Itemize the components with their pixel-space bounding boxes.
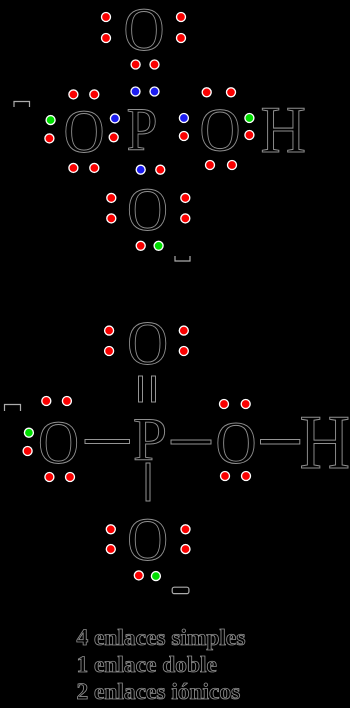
bond pair O2-P	[109, 114, 119, 142]
lone pair O8 left	[106, 525, 115, 554]
svg-text:O: O	[127, 310, 168, 378]
charge minus (left of O6)	[5, 405, 21, 412]
single bond O7-H2	[261, 440, 300, 445]
svg-text:O: O	[64, 98, 105, 166]
svg-text:P: P	[127, 96, 158, 164]
lone pair O3 bottom	[206, 161, 237, 170]
charge minus (bottom-right of O8)	[172, 587, 189, 593]
lone pair O6 top	[42, 397, 72, 406]
lone pair O5 right	[179, 326, 188, 355]
caption line 2	[77, 652, 217, 678]
lone pair O8 right	[181, 525, 190, 554]
lone pair O1 right	[177, 13, 186, 43]
svg-text:1 enlace doble: 1 enlace doble	[77, 652, 217, 678]
bond pair O3-H (green H electron)	[245, 114, 254, 140]
atom O5 (top oxygen)	[127, 310, 168, 378]
ionic electron green + O electron left of O2	[45, 116, 55, 143]
atom O2 (left oxygen)	[64, 98, 105, 166]
svg-text:O: O	[124, 0, 165, 64]
lone pair O3 top	[202, 88, 235, 97]
lone pair O2 top	[69, 90, 99, 99]
lone pair O1 left	[102, 13, 111, 43]
caption line 3	[77, 679, 241, 705]
bond pair P-O4	[136, 165, 165, 174]
double bond O5=P2	[139, 376, 156, 402]
atom P1 (phosphorus)	[127, 96, 158, 164]
atom H1 (hydrogen)	[260, 93, 305, 167]
caption line 1	[77, 625, 246, 651]
atom H2 (hydrogen)	[300, 399, 350, 485]
svg-text:O: O	[127, 506, 168, 574]
lone pair O7 bottom	[221, 472, 251, 481]
lone pair O4 right	[181, 193, 190, 223]
lone pair O5 left	[105, 326, 114, 355]
atom O8 (bottom oxygen)	[127, 506, 168, 574]
atom O7 (right oxygen)	[216, 410, 257, 476]
single bond P2-O8	[146, 463, 150, 501]
charge minus (bottom-right of O4)	[175, 256, 190, 261]
svg-text:H: H	[260, 93, 305, 167]
charge minus (top-left)	[14, 102, 30, 108]
svg-text:H: H	[300, 399, 350, 485]
atom O6 (left oxygen)	[38, 409, 79, 477]
double bond pair blue (P electrons)	[131, 87, 159, 96]
lone pair O4 left	[107, 193, 116, 223]
pair O8 bottom (red + green ionic)	[134, 571, 160, 581]
lone pair O7 top	[220, 400, 251, 409]
svg-text:O: O	[200, 97, 241, 165]
pair O4 bottom (red + green ionic)	[136, 241, 163, 250]
svg-text:O: O	[38, 409, 79, 477]
atom P2 (phosphorus)	[133, 406, 167, 474]
bond pair P-O3	[179, 114, 188, 141]
atom O4 (bottom oxygen)	[127, 176, 168, 244]
lone pair O6 bottom	[45, 473, 75, 482]
svg-text:O: O	[127, 176, 168, 244]
double bond pair red (O1 electrons)	[131, 60, 159, 69]
ionic electron green + O electron left of O6	[23, 428, 33, 455]
atom O1 (top oxygen)	[124, 0, 165, 64]
single bond O6-P2	[85, 440, 130, 444]
single bond P2-O7	[171, 440, 211, 444]
svg-text:4 enlaces simples: 4 enlaces simples	[77, 625, 246, 651]
svg-text:2 enlaces iónicos: 2 enlaces iónicos	[77, 679, 241, 705]
lone pair O2 bottom	[69, 163, 99, 172]
svg-text:O: O	[216, 410, 257, 476]
atom O3 (right oxygen)	[200, 97, 241, 165]
